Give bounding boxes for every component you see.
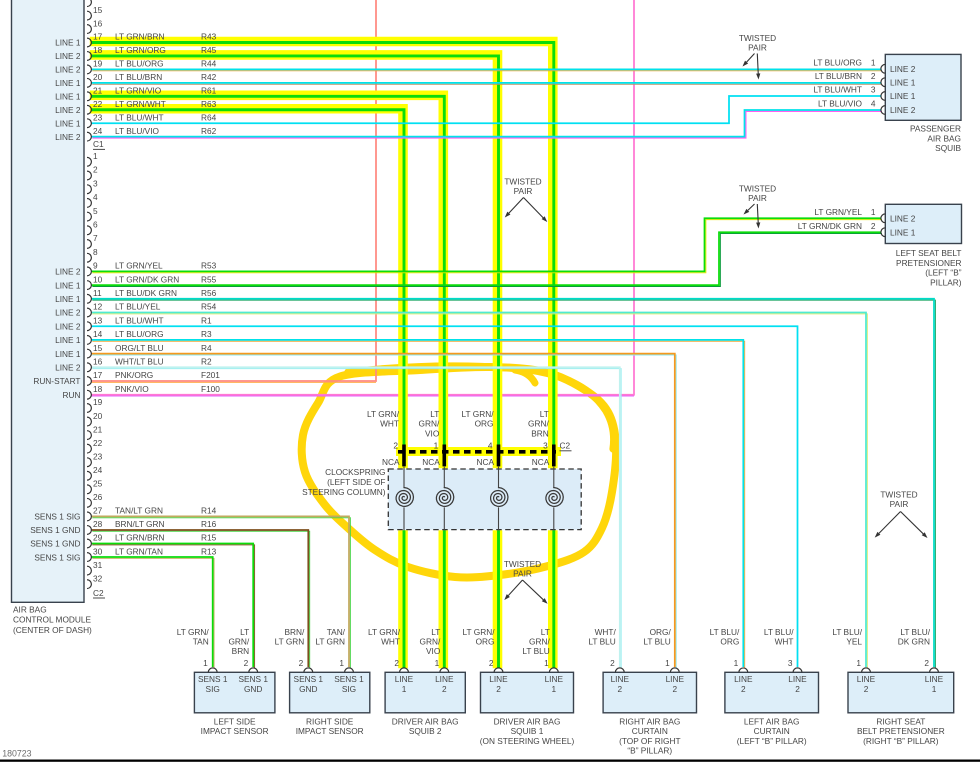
svg-text:30: 30	[93, 546, 103, 556]
svg-text:LINE: LINE	[857, 674, 876, 684]
svg-text:RUN-START: RUN-START	[33, 376, 80, 386]
svg-text:16: 16	[93, 18, 103, 28]
svg-text:18: 18	[93, 45, 103, 55]
svg-text:LINE: LINE	[395, 674, 414, 684]
svg-text:ORG/LT BLU: ORG/LT BLU	[115, 343, 164, 353]
svg-text:2: 2	[442, 684, 447, 694]
svg-text:R2: R2	[201, 357, 212, 367]
svg-text:LINE: LINE	[435, 674, 454, 684]
svg-text:ORG: ORG	[720, 637, 739, 647]
svg-text:PASSENGER: PASSENGER	[910, 124, 961, 134]
svg-text:BELT PRETENSIONER: BELT PRETENSIONER	[857, 726, 945, 736]
svg-text:LT: LT	[431, 627, 440, 637]
svg-text:LT: LT	[541, 627, 550, 637]
svg-text:LT GRN/DK GRN: LT GRN/DK GRN	[115, 274, 179, 284]
svg-text:LT BLU/WHT: LT BLU/WHT	[115, 315, 164, 325]
svg-text:LT GRN: LT GRN	[275, 637, 305, 647]
svg-text:SENS 1 SIG: SENS 1 SIG	[34, 512, 80, 522]
svg-text:24: 24	[93, 126, 103, 136]
svg-text:LT GRN/: LT GRN/	[463, 627, 496, 637]
svg-text:ORG: ORG	[476, 637, 495, 647]
svg-text:15: 15	[93, 5, 103, 15]
svg-text:R43: R43	[201, 32, 217, 42]
svg-text:R14: R14	[201, 506, 217, 516]
svg-text:2: 2	[244, 658, 249, 668]
svg-text:WHT: WHT	[380, 419, 399, 429]
svg-text:YEL: YEL	[846, 637, 862, 647]
svg-text:6: 6	[93, 220, 98, 230]
svg-text:WHT/: WHT/	[595, 627, 617, 637]
svg-text:LT GRN/: LT GRN/	[368, 627, 401, 637]
svg-text:C2: C2	[93, 588, 104, 598]
svg-text:1: 1	[402, 684, 407, 694]
svg-text:23: 23	[93, 451, 103, 461]
svg-text:PAIR: PAIR	[748, 42, 767, 52]
svg-text:LINE 2: LINE 2	[55, 321, 81, 331]
svg-text:R63: R63	[201, 99, 217, 109]
svg-text:WHT: WHT	[775, 637, 794, 647]
svg-text:(LEFT SIDE OF: (LEFT SIDE OF	[327, 477, 385, 487]
svg-text:26: 26	[93, 492, 103, 502]
svg-text:29: 29	[93, 533, 103, 543]
svg-text:SENS 1: SENS 1	[294, 674, 324, 684]
svg-text:SENS 1: SENS 1	[238, 674, 268, 684]
svg-text:AIR BAG: AIR BAG	[13, 605, 47, 615]
svg-text:LT BLU: LT BLU	[643, 637, 670, 647]
svg-text:22: 22	[93, 99, 103, 109]
svg-text:LT BLU/: LT BLU/	[764, 627, 794, 637]
svg-text:180723: 180723	[2, 749, 31, 759]
svg-text:21: 21	[93, 86, 103, 96]
svg-text:LINE 2: LINE 2	[55, 51, 81, 61]
svg-text:DRIVER AIR BAG: DRIVER AIR BAG	[494, 716, 561, 726]
svg-text:TWISTED: TWISTED	[739, 184, 776, 194]
svg-text:LT BLU/BRN: LT BLU/BRN	[815, 71, 862, 81]
svg-text:GRN/: GRN/	[529, 637, 550, 647]
svg-text:C2: C2	[560, 441, 571, 451]
svg-text:R3: R3	[201, 329, 212, 339]
svg-text:2: 2	[394, 658, 399, 668]
svg-text:GRN/: GRN/	[420, 637, 441, 647]
svg-text:5: 5	[93, 206, 98, 216]
svg-text:R13: R13	[201, 546, 217, 556]
svg-text:(TOP OF RIGHT: (TOP OF RIGHT	[619, 736, 680, 746]
svg-text:PILLAR): PILLAR)	[930, 277, 962, 287]
svg-text:1: 1	[932, 684, 937, 694]
svg-text:PAIR: PAIR	[514, 186, 533, 196]
svg-text:LINE 2: LINE 2	[890, 214, 916, 224]
svg-text:R53: R53	[201, 261, 217, 271]
svg-text:2: 2	[871, 221, 876, 231]
svg-text:AIR BAG: AIR BAG	[927, 133, 961, 143]
svg-text:LT GRN/ORG: LT GRN/ORG	[115, 45, 166, 55]
svg-text:LINE: LINE	[734, 674, 753, 684]
svg-text:TAN: TAN	[193, 637, 209, 647]
svg-text:R1: R1	[201, 315, 212, 325]
svg-text:LT BLU/DK GRN: LT BLU/DK GRN	[115, 288, 177, 298]
svg-text:1: 1	[339, 658, 344, 668]
svg-text:3: 3	[788, 658, 793, 668]
svg-text:TWISTED: TWISTED	[504, 559, 541, 569]
svg-text:LT BLU/: LT BLU/	[832, 627, 862, 637]
svg-text:NCA: NCA	[532, 457, 550, 467]
svg-text:NCA: NCA	[476, 457, 494, 467]
svg-text:LT GRN/BRN: LT GRN/BRN	[115, 533, 164, 543]
svg-text:LT GRN: LT GRN	[315, 637, 345, 647]
svg-text:LT GRN/BRN: LT GRN/BRN	[115, 32, 164, 42]
svg-text:LINE: LINE	[788, 674, 807, 684]
svg-text:LT GRN/: LT GRN/	[177, 627, 210, 637]
svg-text:VIO: VIO	[425, 428, 440, 438]
svg-text:LINE 1: LINE 1	[890, 227, 916, 237]
svg-text:17: 17	[93, 32, 103, 42]
svg-text:LINE: LINE	[545, 674, 564, 684]
svg-text:2: 2	[393, 441, 398, 451]
svg-text:1: 1	[203, 658, 208, 668]
svg-text:2: 2	[672, 684, 677, 694]
svg-text:LT BLU/VIO: LT BLU/VIO	[818, 99, 863, 109]
svg-text:LINE: LINE	[925, 674, 944, 684]
svg-text:TWISTED: TWISTED	[504, 176, 541, 186]
svg-text:LINE 2: LINE 2	[890, 64, 916, 74]
svg-text:LINE 1: LINE 1	[55, 38, 81, 48]
svg-text:24: 24	[93, 465, 103, 475]
svg-text:1: 1	[435, 658, 440, 668]
svg-text:2: 2	[489, 658, 494, 668]
svg-text:LT GRN/TAN: LT GRN/TAN	[115, 546, 163, 556]
svg-text:R55: R55	[201, 274, 217, 284]
svg-text:RUN: RUN	[63, 390, 81, 400]
svg-text:LT GRN/DK GRN: LT GRN/DK GRN	[798, 221, 862, 231]
svg-text:3: 3	[543, 441, 548, 451]
svg-text:PAIR: PAIR	[748, 193, 767, 203]
svg-text:CURTAIN: CURTAIN	[754, 726, 790, 736]
svg-text:LT BLU/WHT: LT BLU/WHT	[115, 112, 164, 122]
svg-text:STEERING COLUMN): STEERING COLUMN)	[302, 487, 386, 497]
svg-text:GRN/: GRN/	[419, 419, 440, 429]
svg-text:SQUIB 2: SQUIB 2	[409, 726, 442, 736]
svg-text:LT GRN/: LT GRN/	[462, 409, 495, 419]
svg-text:SQUIB: SQUIB	[935, 143, 961, 153]
svg-text:BRN: BRN	[232, 646, 250, 656]
svg-text:F100: F100	[201, 384, 220, 394]
svg-text:(CENTER OF DASH): (CENTER OF DASH)	[13, 625, 92, 635]
svg-text:TAN/LT GRN: TAN/LT GRN	[115, 506, 163, 516]
svg-text:TWISTED: TWISTED	[880, 490, 917, 500]
svg-text:2: 2	[924, 658, 929, 668]
svg-text:11: 11	[93, 288, 102, 298]
svg-text:LT BLU/WHT: LT BLU/WHT	[813, 85, 862, 95]
svg-text:31: 31	[93, 560, 103, 570]
svg-text:LINE 1: LINE 1	[55, 92, 81, 102]
svg-text:15: 15	[93, 343, 103, 353]
svg-text:LT GRN/WHT: LT GRN/WHT	[115, 99, 166, 109]
svg-text:2: 2	[496, 684, 501, 694]
svg-text:IMPACT SENSOR: IMPACT SENSOR	[296, 726, 364, 736]
svg-text:25: 25	[93, 479, 103, 489]
svg-text:2: 2	[610, 658, 615, 668]
svg-text:1: 1	[544, 658, 549, 668]
svg-text:20: 20	[93, 411, 103, 421]
svg-text:22: 22	[93, 438, 103, 448]
svg-text:LT BLU/ORG: LT BLU/ORG	[813, 58, 862, 68]
svg-text:CONTROL MODULE: CONTROL MODULE	[13, 615, 92, 625]
svg-text:LINE 2: LINE 2	[55, 132, 81, 142]
svg-text:LT GRN/: LT GRN/	[367, 409, 400, 419]
svg-text:LT GRN/VIO: LT GRN/VIO	[115, 86, 162, 96]
svg-text:BRN/: BRN/	[284, 627, 305, 637]
svg-text:GRN/: GRN/	[528, 419, 549, 429]
svg-text:19: 19	[93, 59, 103, 69]
svg-text:2: 2	[795, 684, 800, 694]
svg-text:1: 1	[871, 207, 876, 217]
svg-text:1: 1	[93, 151, 98, 161]
svg-text:14: 14	[93, 329, 103, 339]
svg-text:WHT/LT BLU: WHT/LT BLU	[115, 357, 164, 367]
svg-text:R56: R56	[201, 288, 217, 298]
svg-text:LINE 1: LINE 1	[55, 349, 81, 359]
svg-text:4: 4	[488, 441, 493, 451]
svg-text:R16: R16	[201, 519, 217, 529]
svg-text:9: 9	[93, 261, 98, 271]
svg-text:TAN/: TAN/	[327, 627, 346, 637]
svg-text:RIGHT AIR BAG: RIGHT AIR BAG	[619, 716, 680, 726]
svg-text:23: 23	[93, 112, 103, 122]
svg-text:16: 16	[93, 357, 103, 367]
svg-text:2: 2	[741, 684, 746, 694]
svg-text:27: 27	[93, 506, 103, 516]
svg-text:LT: LT	[240, 627, 249, 637]
svg-text:(LEFT “B”: (LEFT “B”	[925, 268, 961, 278]
svg-text:(ON STEERING WHEEL): (ON STEERING WHEEL)	[480, 736, 575, 746]
svg-text:1: 1	[434, 441, 439, 451]
svg-text:LT GRN/YEL: LT GRN/YEL	[814, 207, 862, 217]
svg-text:PNK/ORG: PNK/ORG	[115, 370, 153, 380]
svg-text:LINE 2: LINE 2	[890, 105, 916, 115]
svg-text:18: 18	[93, 384, 103, 394]
svg-text:GND: GND	[244, 684, 262, 694]
svg-text:SIG: SIG	[206, 684, 220, 694]
svg-text:17: 17	[93, 370, 103, 380]
svg-text:VIO: VIO	[426, 646, 441, 656]
svg-text:LT GRN/YEL: LT GRN/YEL	[115, 261, 163, 271]
svg-text:CLOCKSPRING: CLOCKSPRING	[325, 467, 385, 477]
svg-text:7: 7	[93, 233, 98, 243]
svg-text:BRN/LT GRN: BRN/LT GRN	[115, 519, 164, 529]
svg-text:“B” PILLAR): “B” PILLAR)	[627, 746, 672, 756]
svg-text:R64: R64	[201, 112, 217, 122]
svg-text:LT BLU/ORG: LT BLU/ORG	[115, 329, 164, 339]
svg-text:LINE 1: LINE 1	[55, 118, 81, 128]
svg-text:3: 3	[871, 85, 876, 95]
svg-text:LT BLU/: LT BLU/	[710, 627, 740, 637]
svg-text:12: 12	[93, 302, 103, 312]
svg-text:ORG/: ORG/	[650, 627, 672, 637]
svg-text:LEFT SIDE: LEFT SIDE	[214, 716, 256, 726]
svg-text:R61: R61	[201, 86, 217, 96]
svg-text:LT BLU: LT BLU	[588, 637, 615, 647]
svg-text:PAIR: PAIR	[513, 568, 532, 578]
svg-text:RIGHT SEAT: RIGHT SEAT	[876, 716, 925, 726]
svg-text:3: 3	[93, 178, 98, 188]
svg-text:LT BLU/BRN: LT BLU/BRN	[115, 72, 162, 82]
svg-text:LEFT SEAT BELT: LEFT SEAT BELT	[896, 248, 962, 258]
svg-text:1: 1	[871, 58, 876, 68]
svg-text:2: 2	[864, 684, 869, 694]
svg-text:LINE 1: LINE 1	[55, 78, 81, 88]
svg-text:1: 1	[856, 658, 861, 668]
svg-text:R44: R44	[201, 59, 217, 69]
svg-text:R54: R54	[201, 302, 217, 312]
svg-text:LT: LT	[540, 409, 549, 419]
svg-text:LINE: LINE	[666, 674, 685, 684]
svg-text:LT: LT	[430, 409, 439, 419]
svg-text:4: 4	[93, 192, 98, 202]
svg-text:LINE 2: LINE 2	[55, 363, 81, 373]
svg-text:1: 1	[551, 684, 556, 694]
svg-text:1: 1	[734, 658, 739, 668]
svg-text:LINE 2: LINE 2	[55, 308, 81, 318]
svg-text:13: 13	[93, 315, 103, 325]
svg-text:LEFT AIR BAG: LEFT AIR BAG	[744, 716, 800, 726]
svg-text:LINE 1: LINE 1	[55, 294, 81, 304]
svg-text:PNK/VIO: PNK/VIO	[115, 384, 149, 394]
svg-text:LINE 1: LINE 1	[55, 280, 81, 290]
svg-text:LINE: LINE	[611, 674, 630, 684]
svg-text:20: 20	[93, 72, 103, 82]
svg-text:IMPACT SENSOR: IMPACT SENSOR	[201, 726, 269, 736]
svg-text:R62: R62	[201, 126, 217, 136]
svg-text:LINE 1: LINE 1	[890, 91, 916, 101]
svg-text:8: 8	[93, 247, 98, 257]
svg-text:10: 10	[93, 274, 103, 284]
svg-text:(LEFT “B” PILLAR): (LEFT “B” PILLAR)	[737, 736, 807, 746]
svg-text:PAIR: PAIR	[890, 499, 909, 509]
svg-text:GND: GND	[299, 684, 317, 694]
svg-text:LINE 2: LINE 2	[55, 267, 81, 277]
svg-text:SQUIB 1: SQUIB 1	[511, 726, 544, 736]
svg-text:C1: C1	[93, 139, 104, 149]
svg-text:LINE 1: LINE 1	[890, 77, 916, 87]
svg-text:PRETENSIONER: PRETENSIONER	[896, 258, 961, 268]
svg-text:LT BLU: LT BLU	[522, 646, 549, 656]
svg-text:NCA: NCA	[422, 457, 440, 467]
svg-text:SENS 1: SENS 1	[334, 674, 364, 684]
svg-text:2: 2	[299, 658, 304, 668]
svg-text:21: 21	[93, 424, 103, 434]
svg-text:32: 32	[93, 573, 103, 583]
svg-text:DK GRN: DK GRN	[898, 637, 930, 647]
svg-text:2: 2	[617, 684, 622, 694]
svg-text:LINE 2: LINE 2	[55, 105, 81, 115]
svg-text:DRIVER AIR BAG: DRIVER AIR BAG	[392, 716, 459, 726]
svg-text:NCA: NCA	[382, 457, 400, 467]
svg-text:LINE 1: LINE 1	[55, 335, 81, 345]
svg-text:LT BLU/ORG: LT BLU/ORG	[115, 59, 164, 69]
svg-text:GRN/: GRN/	[228, 637, 249, 647]
svg-text:2: 2	[93, 165, 98, 175]
svg-text:R15: R15	[201, 533, 217, 543]
svg-text:SENS 1 SIG: SENS 1 SIG	[34, 552, 80, 562]
svg-text:(RIGHT “B” PILLAR): (RIGHT “B” PILLAR)	[863, 736, 939, 746]
svg-text:LT BLU/VIO: LT BLU/VIO	[115, 126, 160, 136]
svg-text:4: 4	[871, 99, 876, 109]
svg-text:BRN: BRN	[531, 428, 549, 438]
svg-text:SENS 1 GND: SENS 1 GND	[30, 525, 80, 535]
svg-text:19: 19	[93, 397, 103, 407]
svg-text:1: 1	[665, 658, 670, 668]
svg-text:LINE 2: LINE 2	[55, 65, 81, 75]
svg-text:LT BLU/YEL: LT BLU/YEL	[115, 302, 161, 312]
svg-text:CURTAIN: CURTAIN	[632, 726, 668, 736]
svg-text:28: 28	[93, 519, 103, 529]
svg-text:WHT: WHT	[381, 637, 400, 647]
svg-text:R45: R45	[201, 45, 217, 55]
svg-text:LT BLU/: LT BLU/	[900, 627, 930, 637]
svg-text:R42: R42	[201, 72, 217, 82]
svg-text:2: 2	[871, 71, 876, 81]
svg-text:SENS 1 GND: SENS 1 GND	[30, 539, 80, 549]
svg-text:R4: R4	[201, 343, 212, 353]
svg-text:ORG: ORG	[475, 419, 494, 429]
svg-text:LINE: LINE	[489, 674, 508, 684]
svg-text:TWISTED: TWISTED	[739, 33, 776, 43]
svg-text:SIG: SIG	[342, 684, 356, 694]
svg-text:F201: F201	[201, 370, 220, 380]
svg-text:SENS 1: SENS 1	[198, 674, 228, 684]
svg-text:RIGHT SIDE: RIGHT SIDE	[306, 716, 354, 726]
